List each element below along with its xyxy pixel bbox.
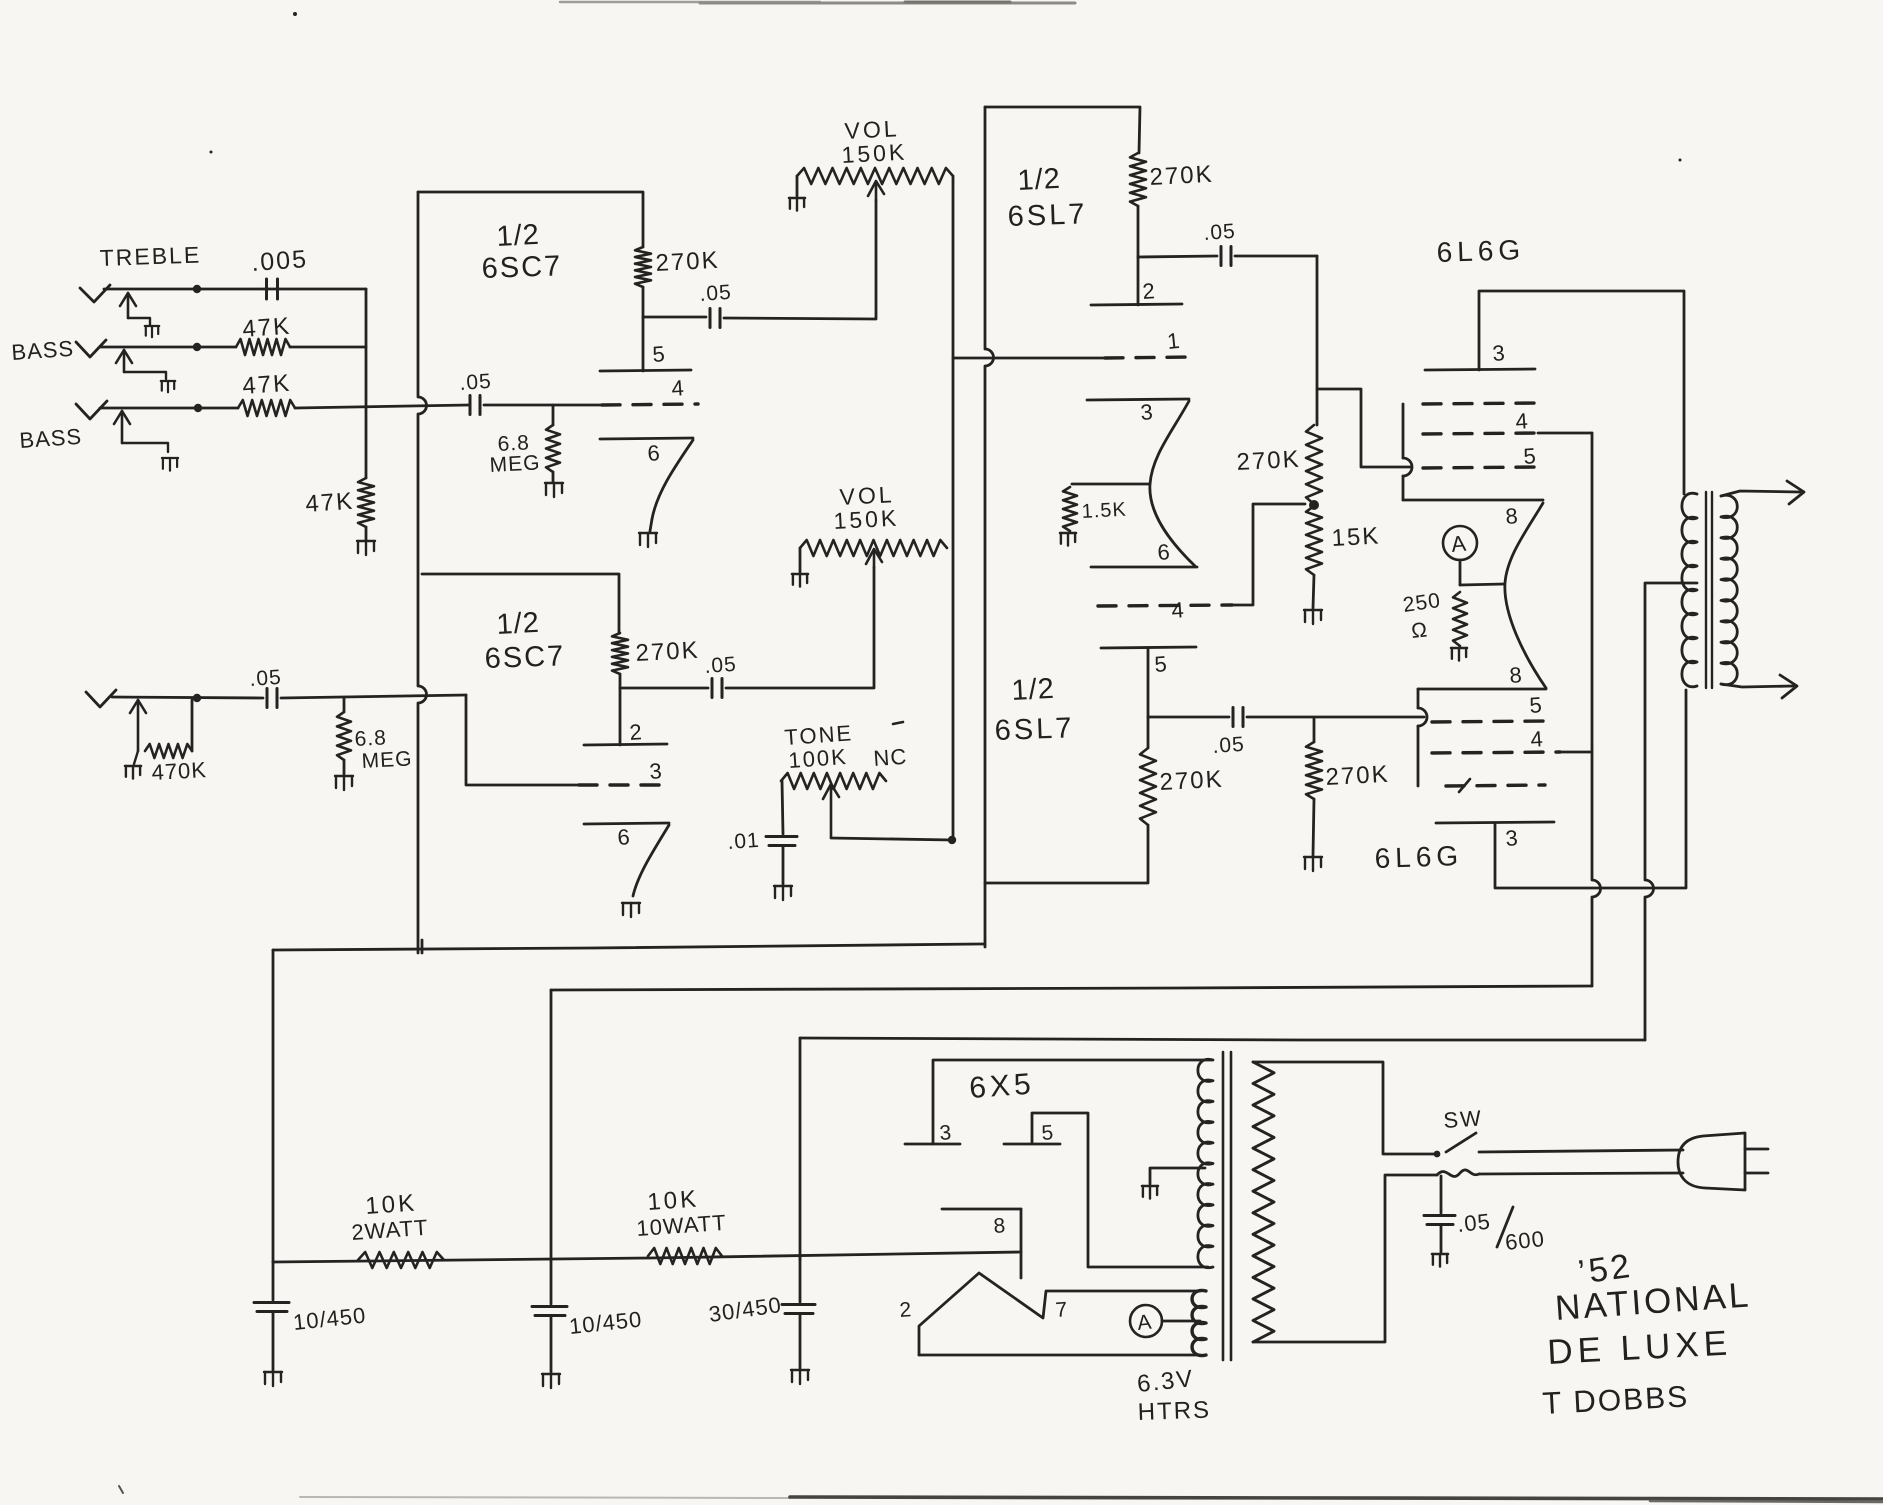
resistor R16 label 270K xyxy=(1325,761,1390,791)
tube label V1 1/2 xyxy=(496,219,541,253)
svg-text:5: 5 xyxy=(1529,692,1543,718)
svg-text:MEG: MEG xyxy=(489,451,541,477)
pin label 8 V5 xyxy=(1505,503,1519,529)
wire B+ box V3 (plate supply loop) xyxy=(985,107,1140,153)
pin label 4 V5 xyxy=(1515,408,1529,434)
resistor R10 label 270K xyxy=(1149,161,1214,191)
ground jack J2 xyxy=(161,381,175,392)
wire screen 5 to bus B xyxy=(1538,432,1592,435)
vertical mixing bus wire xyxy=(365,289,368,478)
title T DOBBS xyxy=(1542,1378,1690,1421)
tone NC tick xyxy=(893,722,903,724)
wire J3 to R3 xyxy=(100,407,238,410)
pin label 5 V6 xyxy=(1529,692,1543,718)
svg-text:270K: 270K xyxy=(1325,761,1390,791)
input jack J2 bass xyxy=(76,340,166,379)
scan edge top marks xyxy=(560,2,1075,3)
wire A to heater CT xyxy=(1162,1320,1200,1323)
wire PT primary top to switch xyxy=(1253,1062,1434,1154)
resistor R6 label 6.8 xyxy=(497,431,530,456)
svg-text:250: 250 xyxy=(1401,589,1442,617)
wire PT primary bottom to plug xyxy=(1253,1175,1437,1342)
pin label 8 V6 xyxy=(1509,662,1523,688)
junction J4 xyxy=(193,694,201,702)
svg-text:A: A xyxy=(1450,531,1468,557)
wire R4 to ground xyxy=(365,527,368,540)
resistor R9 6.8MEG grid leak xyxy=(337,712,351,760)
capacitor C12 label 30/450 xyxy=(707,1292,783,1327)
svg-text:HTRS: HTRS xyxy=(1137,1396,1211,1426)
capacitor C8 label .05 xyxy=(1203,220,1237,245)
node label BASS J3 xyxy=(19,424,83,453)
pin label 5 V1 xyxy=(652,341,666,367)
grid bracket V5 xyxy=(1402,404,1405,500)
pin label 4 V1 xyxy=(671,375,685,401)
junction J1 xyxy=(193,285,201,293)
pin label 5 V4 xyxy=(1154,651,1168,677)
stray dot 2 xyxy=(210,151,213,154)
wire B+ box V2 (plate supply loop) xyxy=(422,574,619,633)
resistor R14 label 15K xyxy=(1331,522,1381,552)
wire plate to C8 xyxy=(1138,256,1217,257)
capacitor C1 label .005 xyxy=(250,245,308,277)
svg-text:.05: .05 xyxy=(704,653,738,678)
svg-text:Ω: Ω xyxy=(1410,618,1429,643)
svg-text:6SC7: 6SC7 xyxy=(481,250,563,285)
wire R5 to plate xyxy=(642,287,645,371)
ground VOL2 xyxy=(792,574,808,587)
grid bracket V6 xyxy=(1417,689,1420,786)
wire 6X5 plate 5 to HV bottom xyxy=(1032,1113,1208,1267)
potentiometer VOL2 150K xyxy=(800,540,947,556)
pin label 3 V5 xyxy=(1492,340,1506,366)
wiper arrow TONE xyxy=(823,784,839,837)
wire bus A (B+ to preamp) xyxy=(273,944,985,950)
wire OT secondary bottom lead with arrow xyxy=(1721,675,1797,698)
resistor R8 label 470K xyxy=(151,757,208,785)
tube label V1 6SC7 xyxy=(481,250,563,285)
svg-text:3: 3 xyxy=(1140,399,1154,425)
resistor R14 15K xyxy=(1306,506,1322,575)
svg-text:8: 8 xyxy=(1509,662,1523,688)
wire plate to C3 xyxy=(643,316,706,319)
wire C3 to VOL1 wiper xyxy=(724,200,876,319)
ground R6 xyxy=(545,483,563,497)
title NATIONAL xyxy=(1554,1275,1753,1328)
svg-text:4: 4 xyxy=(1530,726,1544,752)
svg-text:6.3V: 6.3V xyxy=(1136,1365,1196,1398)
wire bus B left riser xyxy=(550,990,553,1260)
resistor R13 270K xyxy=(1306,425,1322,504)
mains plug body xyxy=(1678,1133,1745,1190)
ground cathode V1 xyxy=(639,533,657,547)
resistor R18 10K 10W xyxy=(648,1248,722,1264)
wire C8 to divider xyxy=(1235,255,1317,258)
wire R10 to plate 2 xyxy=(1137,206,1140,305)
svg-text:47K: 47K xyxy=(242,370,292,400)
capacitor C13 label .05 xyxy=(1456,1209,1492,1237)
resistor R11 1.5K xyxy=(1063,487,1077,531)
svg-text:2: 2 xyxy=(629,719,643,745)
mains wire hop xyxy=(1437,1170,1479,1177)
ground jack J3 xyxy=(162,458,178,471)
svg-text:.05: .05 xyxy=(1212,733,1246,758)
ground C11 xyxy=(542,1374,560,1388)
transformer OT core xyxy=(1706,492,1712,688)
cathode curve V2 xyxy=(633,825,669,896)
junction bus A riser xyxy=(421,940,424,953)
wire bus B (screen supply) xyxy=(551,986,1592,990)
wire plate 5 down xyxy=(1147,648,1150,748)
resistor R3 47K xyxy=(238,400,295,416)
svg-text:8: 8 xyxy=(1505,503,1519,529)
wire screen 4 to bus B xyxy=(1560,751,1592,754)
wiper arrow VOL1 xyxy=(868,181,884,200)
svg-text:6L6G: 6L6G xyxy=(1436,234,1526,268)
pin label 6 V1 xyxy=(647,440,661,466)
input jack J3 bass xyxy=(76,401,168,452)
resistor R18 label 10K xyxy=(647,1185,700,1216)
wire R14 to ground xyxy=(1313,575,1314,608)
ground C13 xyxy=(1432,1254,1448,1267)
svg-text:2WATT: 2WATT xyxy=(351,1215,430,1245)
ground R4 xyxy=(357,541,375,555)
wire R16 to ground xyxy=(1313,799,1314,855)
svg-text:2: 2 xyxy=(1142,278,1156,304)
pin label 8 6X5 xyxy=(993,1214,1006,1238)
ground jack J1 xyxy=(145,326,159,337)
pin label 3 V3 xyxy=(1140,399,1154,425)
svg-text:.05: .05 xyxy=(459,370,493,395)
potentiometer VOL2 label 150K xyxy=(833,505,900,534)
resistor R3 label 47K xyxy=(242,370,292,400)
svg-text:.05: .05 xyxy=(699,281,733,306)
transformer PT primary coil xyxy=(1253,1062,1274,1342)
svg-text:TREBLE: TREBLE xyxy=(99,241,201,271)
stray dot 3 xyxy=(1679,159,1682,162)
svg-text:47K: 47K xyxy=(305,488,355,518)
label 6.3V xyxy=(1136,1365,1196,1398)
wire C2 to grid 4 xyxy=(484,404,602,407)
node A circle xyxy=(1443,526,1477,560)
scan edge bottom xyxy=(300,1497,1883,1502)
svg-text:3: 3 xyxy=(649,758,663,784)
svg-text:6: 6 xyxy=(647,440,661,466)
wire C5 to VOL2 wiper xyxy=(726,567,874,688)
resistor R7 270K (V2 plate load) xyxy=(612,633,628,674)
resistor R5 label 270K xyxy=(655,247,720,277)
input jack J1 treble xyxy=(80,285,150,325)
resistor R17 label 10K xyxy=(365,1189,418,1220)
resistor R2 47K xyxy=(236,339,290,355)
pin 8 cathode line V6 xyxy=(1418,688,1546,691)
tube label V3 1/2 xyxy=(1017,163,1062,197)
svg-text:5: 5 xyxy=(1154,651,1168,677)
pin label 6 V2 xyxy=(617,824,631,850)
capacitor C5 label .05 xyxy=(704,653,738,678)
potentiometer TONE label TONE xyxy=(784,720,854,750)
wire B+ rail xyxy=(273,1252,1021,1262)
capacitor C13 .05/600 xyxy=(1424,1176,1455,1252)
cathode curve V1 xyxy=(652,440,693,519)
pin label 2 V3 xyxy=(1142,278,1156,304)
svg-text:1/2: 1/2 xyxy=(496,607,541,641)
pin label 3 6X5 xyxy=(939,1121,952,1145)
wire C9 to V6 grid xyxy=(1247,716,1424,719)
capacitor C10 10/450 xyxy=(254,1262,289,1370)
wire grid 4 to divider junction xyxy=(1232,504,1305,605)
svg-text:.05: .05 xyxy=(1203,220,1237,245)
wire grid to R9 xyxy=(343,697,346,712)
pin 6 cathode line V1 xyxy=(600,438,693,439)
svg-text:A: A xyxy=(1136,1311,1152,1335)
capacitor C7 label .01 xyxy=(727,829,761,854)
resistor R17 10K 2W xyxy=(358,1252,444,1268)
wire cathode tap to R11 xyxy=(1072,483,1150,486)
capacitor C3 label .05 xyxy=(699,281,733,306)
svg-text:BASS: BASS xyxy=(11,336,75,365)
svg-text:6SL7: 6SL7 xyxy=(1007,198,1088,233)
svg-text:470K: 470K xyxy=(151,757,208,785)
potentiometer TONE 100K xyxy=(781,773,886,789)
svg-text:2: 2 xyxy=(899,1298,912,1322)
ground cathode V2 xyxy=(622,903,640,917)
ground R14 xyxy=(1304,610,1322,624)
svg-text:6SC7: 6SC7 xyxy=(484,640,566,675)
resistor R2 label 47K xyxy=(242,313,292,343)
pin 1 grid dashed V3 xyxy=(1105,357,1190,358)
capacitor C3 .05 xyxy=(710,309,720,328)
pin 5 plate line V4 xyxy=(1101,647,1196,648)
capacitor C8 .05 xyxy=(1221,247,1231,266)
resistor R6 label MEG xyxy=(489,451,541,477)
pin label 4 V4 xyxy=(1171,597,1185,623)
potentiometer VOL1 150K xyxy=(797,168,953,184)
pin 6 cathode line V3 xyxy=(1091,566,1197,569)
capacitor C12 30/450 xyxy=(782,1256,815,1368)
node label BASS J2 xyxy=(11,336,75,365)
ground R15 xyxy=(1451,648,1467,661)
wire R9 to ground xyxy=(343,760,346,774)
node label TREBLE xyxy=(99,241,201,271)
pin 8 cathode line 6X5 xyxy=(942,1208,1021,1211)
svg-text:.05: .05 xyxy=(1456,1209,1492,1237)
svg-text:270K: 270K xyxy=(1149,161,1214,191)
capacitor C1 .005 xyxy=(267,279,278,299)
svg-text:3: 3 xyxy=(1492,340,1506,366)
tube label 6X5 xyxy=(968,1068,1036,1105)
pin 8 cathode line V5 xyxy=(1403,499,1543,502)
tube label V6 6L6G xyxy=(1374,840,1464,874)
pin 4 screen dashed V6 xyxy=(1432,752,1560,753)
wire plate to C9 xyxy=(1148,716,1229,719)
svg-text:15K: 15K xyxy=(1331,522,1381,552)
svg-text:600: 600 xyxy=(1504,1226,1546,1255)
pin label 1 V3 xyxy=(1166,328,1181,354)
junction J2 xyxy=(193,343,201,351)
wire bus A left riser xyxy=(272,950,275,1262)
wire lower mains to plug xyxy=(1479,1173,1683,1174)
potentiometer VOL2 label VOL xyxy=(839,481,895,510)
potentiometer TONE label NC xyxy=(873,744,908,771)
wire divider top xyxy=(1316,256,1319,425)
switch SW blade xyxy=(1434,1133,1476,1157)
pin label 4 V6 xyxy=(1530,726,1544,752)
wire grid to R6 xyxy=(552,405,555,425)
svg-text:6.8: 6.8 xyxy=(354,726,387,751)
svg-text:T DOBBS: T DOBBS xyxy=(1542,1378,1690,1421)
wire cathode V1 to ground xyxy=(650,519,652,531)
pin 4 grid dashed V1 xyxy=(602,404,698,405)
grid hook V5 xyxy=(1403,458,1412,476)
wire VOL1 left end down xyxy=(796,176,799,196)
ground R9 xyxy=(335,776,353,790)
transformer OT primary coil xyxy=(1682,493,1697,687)
transformer OT secondary coil xyxy=(1721,495,1737,684)
switch SW label xyxy=(1443,1105,1484,1133)
wiper arrow VOL2 xyxy=(866,549,882,567)
junction TONE wiper bus xyxy=(948,836,956,844)
resistor R4 label 47K xyxy=(305,488,355,518)
pin label 7 6X5 xyxy=(1055,1298,1068,1322)
plug prong upper xyxy=(1745,1148,1768,1151)
capacitor C9 label .05 xyxy=(1212,733,1246,758)
wire 6X5 plate 3 to HV top xyxy=(933,1060,1212,1144)
pin g1 dashed V6 xyxy=(1446,785,1545,786)
svg-text:7: 7 xyxy=(1055,1298,1068,1322)
potentiometer VOL1 label 150K xyxy=(841,139,908,168)
ground R16 xyxy=(1304,857,1322,871)
plug prong lower xyxy=(1745,1172,1768,1175)
resistor R15 250 ohm xyxy=(1453,592,1467,646)
heater pins 2-7 wire xyxy=(919,1273,1200,1355)
wire B+ left edge V3 xyxy=(985,107,994,947)
wire R12 to B+ edge xyxy=(985,825,1148,883)
wire HV center tap xyxy=(1150,1168,1205,1184)
wire B+ box V1 (plate supply loop) xyxy=(418,192,643,247)
tube label V3 6SL7 xyxy=(1007,198,1088,233)
potentiometer VOL1 label VOL xyxy=(844,115,900,144)
svg-text:150K: 150K xyxy=(841,139,908,168)
svg-text:MEG: MEG xyxy=(361,747,413,773)
wire J1 to mixing bus xyxy=(104,288,366,291)
svg-text:270K: 270K xyxy=(655,247,720,277)
wire bus C left riser xyxy=(799,1038,802,1260)
svg-text:30/450: 30/450 xyxy=(707,1292,783,1327)
tube label V5 6L6G xyxy=(1436,234,1526,268)
tube label V4 1/2 xyxy=(1011,673,1056,707)
capacitor C2 label .05 xyxy=(459,370,493,395)
svg-text:6: 6 xyxy=(1157,539,1171,565)
stray dot 1 xyxy=(293,12,297,16)
wire divider to V5 grid xyxy=(1317,389,1410,467)
capacitor C7 .01 xyxy=(766,837,797,846)
svg-text:270K: 270K xyxy=(1236,446,1301,476)
resistor R18 label 10WATT xyxy=(636,1210,728,1241)
wire switch to plug xyxy=(1479,1150,1683,1152)
pin 6 cathode line V2 xyxy=(584,823,669,824)
svg-text:1: 1 xyxy=(1166,328,1181,354)
capacitor C11 label 10/450 xyxy=(568,1306,644,1339)
ground R11 xyxy=(1060,533,1076,546)
transformer PT heater winding 6.3V xyxy=(1192,1290,1206,1355)
svg-text:6SL7: 6SL7 xyxy=(994,712,1075,747)
tube label V2 1/2 xyxy=(496,607,541,641)
wire C6 to V2 grid xyxy=(281,695,466,698)
svg-text:10/450: 10/450 xyxy=(568,1306,644,1339)
heater bottom wire xyxy=(919,1354,1200,1357)
ground VOL1 xyxy=(789,198,805,211)
resistor R9 label 6.8 xyxy=(354,726,387,751)
ground C10 xyxy=(264,1372,282,1386)
svg-text:6: 6 xyxy=(617,824,631,850)
pin 4 grid dashed V4 xyxy=(1098,605,1232,606)
capacitor C2 .05 input xyxy=(470,396,480,415)
wire VOL1 top to signal bus xyxy=(952,176,955,842)
potentiometer TONE label 100K xyxy=(788,744,849,773)
title DE LUXE xyxy=(1546,1323,1733,1372)
wire TONE wiper to VOL bus xyxy=(831,838,953,840)
g1 tick V6 xyxy=(1459,779,1470,792)
input jack J4 xyxy=(86,690,146,751)
resistor R12 270K (V4 plate load) xyxy=(1140,748,1156,825)
svg-text:150K: 150K xyxy=(833,505,900,534)
wire R7 to plate xyxy=(619,674,622,745)
capacitor C13 label 600 xyxy=(1504,1226,1546,1255)
transformer PT core xyxy=(1223,1052,1231,1360)
wire C7 to ground xyxy=(782,846,785,884)
svg-text:6X5: 6X5 xyxy=(968,1068,1036,1105)
svg-text:3: 3 xyxy=(939,1121,952,1145)
wire plate to C5 xyxy=(620,687,708,690)
capacitor C10 label 10/450 xyxy=(292,1302,368,1335)
svg-text:1/2: 1/2 xyxy=(1017,163,1062,197)
svg-text:5: 5 xyxy=(1041,1121,1054,1145)
resistor R10 270K (V3 plate load) xyxy=(1130,153,1146,206)
svg-text:4: 4 xyxy=(671,375,685,401)
svg-text:100K: 100K xyxy=(788,744,849,773)
junction divider xyxy=(1309,500,1319,510)
capacitor C6 label .05 xyxy=(249,666,283,691)
title '52 xyxy=(1576,1247,1635,1292)
pin g1 dashed V5 xyxy=(1423,467,1539,468)
pin 3 grid dashed V2 xyxy=(579,783,667,786)
svg-text:.01: .01 xyxy=(727,829,761,854)
resistor R16 270K (V6 grid leak) xyxy=(1306,718,1322,799)
pin 5 plate line 6X5 xyxy=(1004,1143,1060,1146)
wire J4 to C6 xyxy=(112,697,263,698)
capacitor C9 .05 xyxy=(1233,708,1243,727)
svg-text:6L6G: 6L6G xyxy=(1374,840,1464,874)
svg-text:.005: .005 xyxy=(250,245,308,277)
pin 5 plate line V1 xyxy=(600,370,691,371)
wire VOL2 left end down xyxy=(799,548,802,572)
junction J3 xyxy=(194,404,202,412)
pin label 6 V3 xyxy=(1157,539,1171,565)
resistor R8 470K xyxy=(145,700,192,758)
svg-text:1/2: 1/2 xyxy=(1011,673,1056,707)
capacitor C11 10/450 xyxy=(532,1260,567,1372)
pin label 2 V2 xyxy=(629,719,643,745)
node A circle heater CT xyxy=(1130,1305,1162,1337)
wire plate V6 to OT xyxy=(1495,690,1686,888)
ground HV center tap xyxy=(1142,1186,1158,1199)
ground C7 xyxy=(774,886,792,900)
wire bus C (plate supply) xyxy=(800,1038,1645,1040)
resistor R6 6.8MEG grid leak xyxy=(546,425,560,472)
label HTRS xyxy=(1137,1396,1211,1426)
pin label 5 V5 xyxy=(1523,443,1537,469)
